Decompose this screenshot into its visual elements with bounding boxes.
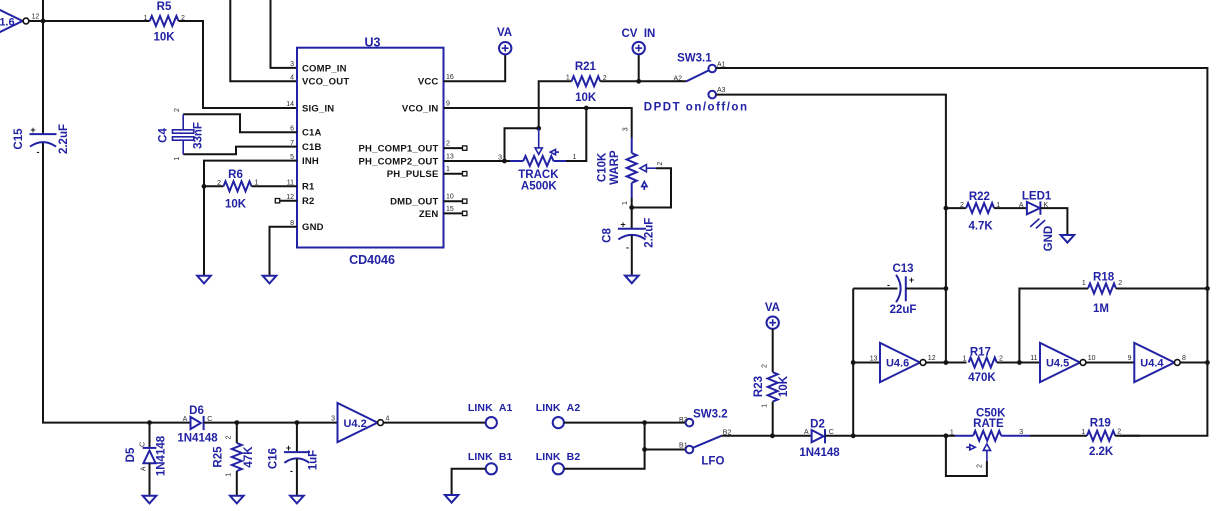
wire SW3.1 A1 to right bus [716, 68, 1207, 289]
svg-text:2: 2 [657, 162, 664, 166]
wire VA to R23 [772, 329, 774, 372]
svg-text:A2: A2 [673, 75, 682, 82]
wire D2 cathode to x853 junction [825, 435, 853, 437]
wire U4.5 out to U4.4 in [1086, 362, 1134, 364]
RATE cursor arrow [966, 445, 975, 450]
svg-text:R2: R2 [302, 196, 315, 207]
svg-text:1: 1 [1081, 429, 1085, 436]
inverter U4.2 [338, 403, 384, 442]
capacitor C16 plates [284, 452, 310, 463]
svg-text:VCO_IN: VCO_IN [402, 103, 439, 114]
svg-text:9: 9 [1128, 355, 1132, 362]
svg-text:R17: R17 [970, 347, 991, 359]
connector LINK B1 [486, 463, 497, 474]
svg-text:2: 2 [603, 75, 607, 82]
wire R23 to LFO row [772, 402, 774, 436]
U3 R2 stub [280, 200, 297, 202]
U3 NC stub pin 15 [444, 212, 463, 214]
svg-text:11: 11 [1030, 355, 1037, 362]
svg-text:CD4046: CD4046 [349, 253, 395, 267]
wire to D5 cathode [149, 423, 151, 448]
svg-text:-: - [626, 243, 629, 253]
wire U3 GND pin down [270, 227, 298, 276]
capacitor C4 plates [173, 114, 194, 154]
wire TRACK pin3 loop to wiper node [505, 128, 539, 161]
ground under R25 [230, 496, 244, 504]
ground under C8 [625, 276, 639, 284]
inverter U4.4 [1134, 343, 1180, 382]
switch SW3.2 contact B1 [686, 446, 694, 454]
svg-text:3: 3 [623, 127, 630, 131]
wire D6 anode segment [150, 422, 191, 424]
junction TRACK pin3 node [502, 159, 507, 164]
svg-text:1: 1 [566, 75, 570, 82]
ground at LED1 [1061, 235, 1075, 243]
inverter U4.6 [880, 343, 926, 382]
svg-text:D5: D5 [125, 447, 137, 462]
svg-text:1N4148: 1N4148 [177, 433, 218, 445]
resistor R25 zigzag [232, 443, 242, 471]
potentiometer WARP zigzag [627, 153, 637, 183]
wire CV junction to SW3.1 A2 [639, 80, 687, 82]
WARP pot leads [631, 138, 633, 199]
svg-text:4: 4 [290, 75, 294, 82]
wire WARP wiper to bottom junction [632, 168, 671, 207]
U3 NC square pad pin 1 [463, 172, 467, 176]
wire R19 pin2 to right bus [1115, 435, 1140, 437]
wire R6 pin2 stub [204, 185, 224, 187]
svg-text:C10K: C10K [597, 152, 609, 182]
ground under INH wire [197, 276, 211, 284]
svg-text:A: A [141, 466, 148, 471]
svg-text:PH_COMP2_OUT: PH_COMP2_OUT [358, 156, 438, 167]
RATE pot leads [955, 435, 1030, 437]
svg-text:2: 2 [960, 202, 964, 209]
U3 NC stub pin 1 [444, 173, 463, 175]
op-amp U3 CD4046 box [297, 48, 444, 248]
RATE wiper arrow [983, 444, 990, 461]
diode D5 [143, 448, 157, 463]
svg-text:1: 1 [762, 404, 769, 408]
power symbol CV IN [633, 42, 645, 54]
wire vertical left bus x=43 upper (to C15 top) [42, 0, 44, 134]
svg-text:VCC: VCC [418, 77, 439, 88]
svg-text:R25: R25 [213, 446, 225, 468]
wire from top edge to U3 VCO_OUT [230, 0, 297, 81]
ground under D5 [143, 496, 157, 504]
svg-text:TRACK: TRACK [518, 169, 559, 181]
TRACK cursor arrow [550, 149, 559, 154]
svg-text:+: + [286, 443, 291, 453]
wire U3 VCC to VA [444, 54, 506, 81]
wire TRACK pin1 riser [566, 108, 586, 161]
wire LINK A2 to SW3.2 B3 [564, 422, 685, 424]
switch SW3.1 lever [686, 70, 708, 81]
svg-text:1: 1 [950, 430, 954, 437]
svg-text:1N4148: 1N4148 [799, 447, 840, 459]
svg-text:12: 12 [928, 355, 936, 362]
wire R18 pin2 to right bus [1116, 288, 1207, 290]
wire CV IN drop [638, 54, 640, 81]
svg-text:2: 2 [762, 364, 769, 368]
svg-text:GND: GND [302, 222, 324, 233]
wire right bus lower [1120, 289, 1207, 436]
svg-text:2.2uF: 2.2uF [644, 218, 656, 248]
svg-text:3: 3 [1019, 429, 1023, 436]
wire to SW3.2 B1 [645, 449, 686, 451]
svg-text:1: 1 [255, 180, 259, 187]
svg-text:1: 1 [573, 154, 577, 161]
svg-text:SW3.1: SW3.1 [677, 52, 712, 64]
svg-text:10: 10 [1088, 355, 1096, 362]
svg-text:INH: INH [302, 156, 319, 167]
svg-text:COMP_IN: COMP_IN [302, 63, 347, 74]
svg-text:16: 16 [446, 74, 454, 81]
svg-text:DPDT on/off/on: DPDT on/off/on [644, 101, 749, 113]
svg-text:A: A [1019, 202, 1024, 209]
junction R25 node [234, 420, 239, 425]
wire C8 bottom to ground [631, 235, 633, 275]
svg-text:-: - [37, 147, 40, 157]
power symbol VA (top) [499, 42, 511, 54]
junction right bus / U4.4 out [1205, 360, 1210, 365]
wire U4.6 out to R17 [926, 362, 966, 364]
svg-text:2: 2 [217, 180, 221, 187]
svg-text:13: 13 [446, 154, 454, 161]
connector LINK A2 [553, 417, 564, 428]
svg-text:2: 2 [1117, 429, 1121, 436]
svg-text:-: - [290, 466, 293, 476]
wire U4.2 out to LINK A1 [384, 422, 486, 424]
wire LED1 cathode to ground [1040, 208, 1067, 235]
svg-text:U3: U3 [365, 36, 381, 50]
wire R18 riser [1019, 289, 1088, 363]
svg-text:ZEN: ZEN [419, 209, 439, 220]
wire R22 pin2 stub [946, 207, 966, 209]
ground under U3 GND pin [263, 276, 277, 284]
resistor R18 zigzag [1088, 284, 1116, 294]
inverter U4.5 [1040, 343, 1086, 382]
svg-text:C13: C13 [892, 263, 913, 275]
capacitor C8 plates [618, 229, 646, 240]
svg-text:10K: 10K [225, 199, 247, 211]
svg-text:A3: A3 [717, 87, 726, 94]
wire R25 top lead [236, 423, 238, 443]
wire R5 pin2 to U3 SIG_IN [179, 21, 298, 108]
svg-text:1: 1 [226, 473, 233, 477]
svg-text:+: + [620, 219, 625, 229]
svg-text:RATE: RATE [973, 418, 1004, 430]
svg-text:R5: R5 [157, 1, 172, 13]
svg-text:1: 1 [996, 202, 1000, 209]
svg-text:A: A [804, 429, 809, 436]
svg-text:1: 1 [446, 166, 450, 173]
potentiometer RATE zigzag [973, 431, 1001, 441]
wire to U4.6 input [853, 362, 880, 364]
svg-text:470K: 470K [968, 372, 996, 384]
svg-text:47K: 47K [243, 446, 255, 468]
svg-text:33nF: 33nF [193, 122, 205, 149]
junction node at x=43 top wire [41, 19, 46, 24]
diode D2 [812, 429, 825, 443]
svg-text:R23: R23 [753, 376, 765, 397]
ground under C16 [290, 496, 304, 504]
wire from U1.6 output to R5 pin 1 [29, 20, 150, 22]
svg-text:1M: 1M [1093, 303, 1109, 315]
svg-text:LED1: LED1 [1022, 190, 1052, 202]
wire R17 pin2 to U4.5 input [997, 362, 1040, 364]
svg-text:1: 1 [963, 355, 967, 362]
svg-text:+: + [30, 125, 35, 135]
svg-text:1: 1 [174, 156, 181, 160]
svg-text:R21: R21 [575, 61, 597, 73]
resistor R19 zigzag [1087, 431, 1115, 441]
svg-text:C8: C8 [601, 228, 613, 243]
svg-text:D2: D2 [810, 419, 825, 431]
wire R25 bottom lead [236, 471, 238, 496]
svg-text:10K: 10K [778, 375, 790, 397]
svg-text:CV IN: CV IN [621, 28, 655, 40]
svg-text:LINK B2: LINK B2 [536, 451, 581, 463]
svg-text:SW3.2: SW3.2 [693, 409, 728, 421]
svg-text:C1A: C1A [302, 128, 322, 139]
junction INH/R6 [202, 184, 207, 189]
svg-text:SIG_IN: SIG_IN [302, 103, 334, 114]
svg-text:2: 2 [1118, 280, 1122, 287]
TRACK pot leads [510, 160, 566, 162]
svg-text:1N4148: 1N4148 [156, 435, 168, 476]
wire SW3.1 A3 to R22 bus [716, 95, 946, 363]
svg-text:2.2K: 2.2K [1089, 446, 1114, 458]
resistor R6 zigzag [224, 181, 252, 191]
svg-text:GND: GND [1043, 226, 1055, 252]
junction A3 bus / R22 [944, 206, 949, 211]
wire U3 INH left and down to ground [204, 161, 297, 276]
svg-text:12: 12 [32, 14, 40, 21]
WARP cursor arrow [642, 182, 647, 190]
junction C13 / A3 bus [944, 286, 949, 291]
wire to D2 anode [772, 435, 812, 437]
svg-text:2: 2 [174, 108, 181, 112]
wire vertical x=853 (C13 to LFO row) [852, 289, 854, 436]
svg-text:LINK A2: LINK A2 [536, 402, 581, 414]
U3 NC square pad pin 2 [463, 146, 467, 150]
junction x853 LFO row [851, 433, 856, 438]
wire C16 bottom to ground [296, 459, 298, 496]
wire C4 top to U3 C1A [183, 114, 297, 132]
svg-text:R6: R6 [228, 169, 243, 181]
wire SW3.2 B2 to R23 junction [721, 435, 772, 437]
potentiometer TRACK zigzag [523, 156, 553, 166]
svg-text:4: 4 [386, 416, 390, 423]
svg-text:22uF: 22uF [890, 304, 917, 316]
ground at LINK B1 [445, 495, 459, 503]
wire C16 node to U4.2 input [297, 422, 338, 424]
svg-text:2: 2 [226, 435, 233, 439]
svg-text:3: 3 [498, 155, 502, 162]
wire LINK B1 to ground [452, 469, 486, 495]
wire U4.4 out to right bus [1181, 362, 1208, 364]
connector LINK B2 [553, 463, 564, 474]
junction RATE wiper loop / pin1 [944, 433, 949, 438]
wire U3 VCO_IN to WARP pot [444, 108, 632, 138]
wire junction to C8 top [631, 208, 633, 229]
resistor R22 zigzag [966, 203, 994, 213]
svg-text:3: 3 [290, 61, 294, 68]
wire vertical left bus x=43 lower (C15 bottom to LFO row corner) [43, 142, 150, 423]
switch SW3.1 contact A1 [708, 65, 716, 73]
U3 NC stub pin 2 [444, 147, 463, 149]
svg-text:VA: VA [497, 27, 512, 39]
svg-text:C16: C16 [268, 448, 280, 469]
svg-text:A500K: A500K [521, 181, 557, 193]
svg-text:C4: C4 [158, 128, 170, 143]
svg-text:DMD_OUT: DMD_OUT [390, 197, 438, 208]
wire C16 top lead [296, 423, 298, 453]
U3 NC square pad pin 10 [463, 199, 467, 203]
junction link bus top [642, 420, 647, 425]
junction R23 / LFO row [770, 433, 775, 438]
svg-text:10K: 10K [575, 92, 597, 104]
svg-text:U4.2: U4.2 [343, 418, 366, 430]
svg-text:4.7K: 4.7K [968, 220, 993, 232]
svg-text:2: 2 [977, 464, 984, 468]
svg-text:LINK A1: LINK A1 [468, 402, 513, 414]
svg-text:C: C [140, 442, 147, 447]
wire R6 pin1 to U3 R1 [252, 185, 298, 187]
wire C4 bottom to U3 C1B [183, 147, 297, 155]
svg-text:+: + [909, 275, 914, 285]
diode D6 [191, 416, 204, 430]
switch SW3.1 contact A3 [708, 91, 716, 99]
wire R22 pin1 to LED1 anode [994, 207, 1027, 209]
svg-text:1: 1 [1082, 280, 1086, 287]
wire WARP pin1 to C8 junction [631, 198, 633, 208]
resistor R21 zigzag [572, 76, 601, 86]
power symbol VA at R23 [767, 317, 779, 329]
svg-text:U4.4: U4.4 [1140, 358, 1164, 370]
svg-text:C15: C15 [13, 128, 25, 150]
svg-text:14: 14 [286, 101, 294, 108]
svg-text:1uF: 1uF [308, 450, 320, 470]
svg-text:PH_COMP1_OUT: PH_COMP1_OUT [358, 144, 438, 155]
svg-text:A: A [183, 416, 188, 423]
junction link bus / B1 wire [642, 447, 647, 452]
junction TRACK wiper node [536, 126, 541, 131]
svg-text:8: 8 [1182, 355, 1186, 362]
wire D5 anode to ground [149, 463, 151, 496]
svg-text:VA: VA [765, 302, 780, 314]
TRACK wiper arrow [535, 128, 542, 154]
svg-text:13: 13 [870, 355, 878, 362]
inverter U1.6 (partial, top-left) [0, 2, 29, 41]
svg-text:-: - [887, 280, 890, 290]
wire RATE pin3 to R19 [1030, 435, 1087, 437]
U3 NC square pad pin 15 [463, 211, 467, 215]
svg-text:VCO_OUT: VCO_OUT [302, 77, 349, 88]
svg-text:C1B: C1B [302, 142, 322, 153]
connector LINK A1 [486, 417, 497, 428]
switch SW3.2 contact B3 [686, 419, 694, 427]
resistor R23 zigzag [768, 372, 778, 401]
svg-text:WARP: WARP [609, 150, 621, 185]
svg-text:PH_PULSE: PH_PULSE [387, 169, 439, 180]
wire x853 to RATE pin1 [853, 435, 955, 437]
svg-text:2: 2 [999, 355, 1003, 362]
junction x853 gate input row [851, 360, 856, 365]
junction WARP/C8 [629, 205, 634, 210]
wire C13 right [906, 288, 946, 290]
svg-text:2.2uF: 2.2uF [58, 124, 70, 154]
svg-text:U1.6: U1.6 [0, 17, 15, 29]
WARP wiper arrow [640, 165, 656, 172]
U3 NC stub pin 10 [444, 200, 463, 202]
svg-text:10: 10 [446, 194, 454, 201]
wire D6 cathode to R25 node [204, 422, 237, 424]
capacitor C15 plates [30, 134, 57, 147]
svg-text:U4.5: U4.5 [1046, 358, 1069, 370]
svg-text:R22: R22 [969, 191, 990, 203]
svg-text:15: 15 [446, 206, 454, 213]
svg-text:LINK B1: LINK B1 [468, 451, 513, 463]
junction right bus / R18 [1205, 286, 1210, 291]
junction C16 node [295, 420, 300, 425]
wire U3 PH_COMP2_OUT to TRACK pin3 [444, 160, 511, 162]
junction CV IN [636, 79, 641, 84]
junction D5 node [147, 420, 152, 425]
svg-text:U4.6: U4.6 [886, 358, 909, 370]
svg-text:1: 1 [622, 201, 629, 205]
wire R25 node to C16 node [237, 422, 297, 424]
wire C13 left [853, 288, 897, 290]
svg-text:LFO: LFO [701, 456, 724, 468]
junction U4.6 output / A3 bus end [944, 360, 949, 365]
svg-text:2: 2 [446, 141, 450, 148]
svg-text:R19: R19 [1090, 417, 1111, 429]
wire RATE wiper loop [946, 436, 987, 476]
svg-text:R18: R18 [1093, 272, 1115, 284]
svg-text:1: 1 [144, 15, 148, 22]
LED LED1 symbol [1027, 201, 1045, 228]
junction VCO_IN / TRACK pin1 [584, 106, 589, 111]
wire from top edge to U3 COMP_IN [271, 0, 298, 68]
svg-text:D6: D6 [189, 405, 204, 417]
svg-text:B1: B1 [679, 443, 688, 450]
wire R21 pin2 to CV junction [600, 80, 639, 82]
resistor R17 zigzag [969, 358, 997, 368]
svg-text:B3: B3 [679, 417, 688, 424]
wire wiper node to R21 pin 1 [539, 81, 572, 128]
svg-text:R1: R1 [302, 182, 315, 193]
switch SW3.2 lever [693, 436, 722, 448]
U3 R2 NC square pad [275, 199, 279, 203]
wire link bus vertical [564, 423, 645, 469]
svg-text:9: 9 [446, 101, 450, 108]
junction R17 / U4.5 / R18 riser [1017, 360, 1022, 365]
svg-text:3: 3 [331, 416, 335, 423]
resistor R5 zigzag [150, 16, 179, 26]
svg-text:10K: 10K [153, 32, 175, 44]
capacitor C13 plates [896, 275, 906, 302]
